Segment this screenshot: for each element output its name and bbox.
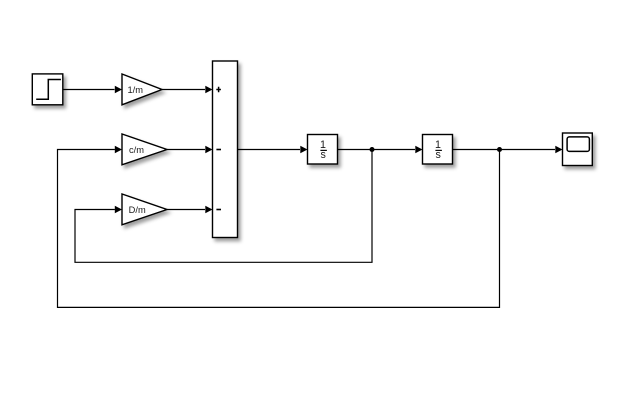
sum block second - sign [216,209,221,211]
wire gain D/m to sum second - input [167,206,213,213]
wire integrator I1 output to integrator I2 [338,146,423,153]
svg-text:c/m: c/m [129,145,144,155]
integrator block I1 (1/s) [308,135,338,165]
junction node after integrator I1 [370,147,375,152]
wire gain c/m to sum first - input [167,146,213,153]
wire position feedback loop to gain c/m [58,146,500,308]
sum block + sign [216,87,221,92]
svg-text:D/m: D/m [129,205,146,215]
svg-text:s: s [321,149,326,161]
wire step output to gain 1/m [63,86,122,93]
svg-text:s: s [436,149,441,161]
gain block c/m [122,134,167,165]
integrator block I2 (1/s) [423,135,453,165]
sum block first - sign [216,149,221,151]
sum block [213,61,238,238]
wire integrator I2 output to scope [453,146,563,153]
junction node after integrator I2 [497,147,502,152]
gain block D/m [122,194,167,225]
svg-text:1/m: 1/m [127,85,143,95]
wire gain 1/m to sum + input [162,86,213,93]
wire velocity feedback loop to gain D/m [75,150,372,263]
step source block [32,74,63,105]
gain block 1/m [122,74,162,105]
wire sum output to integrator I1 [238,146,308,153]
scope block [563,133,593,166]
